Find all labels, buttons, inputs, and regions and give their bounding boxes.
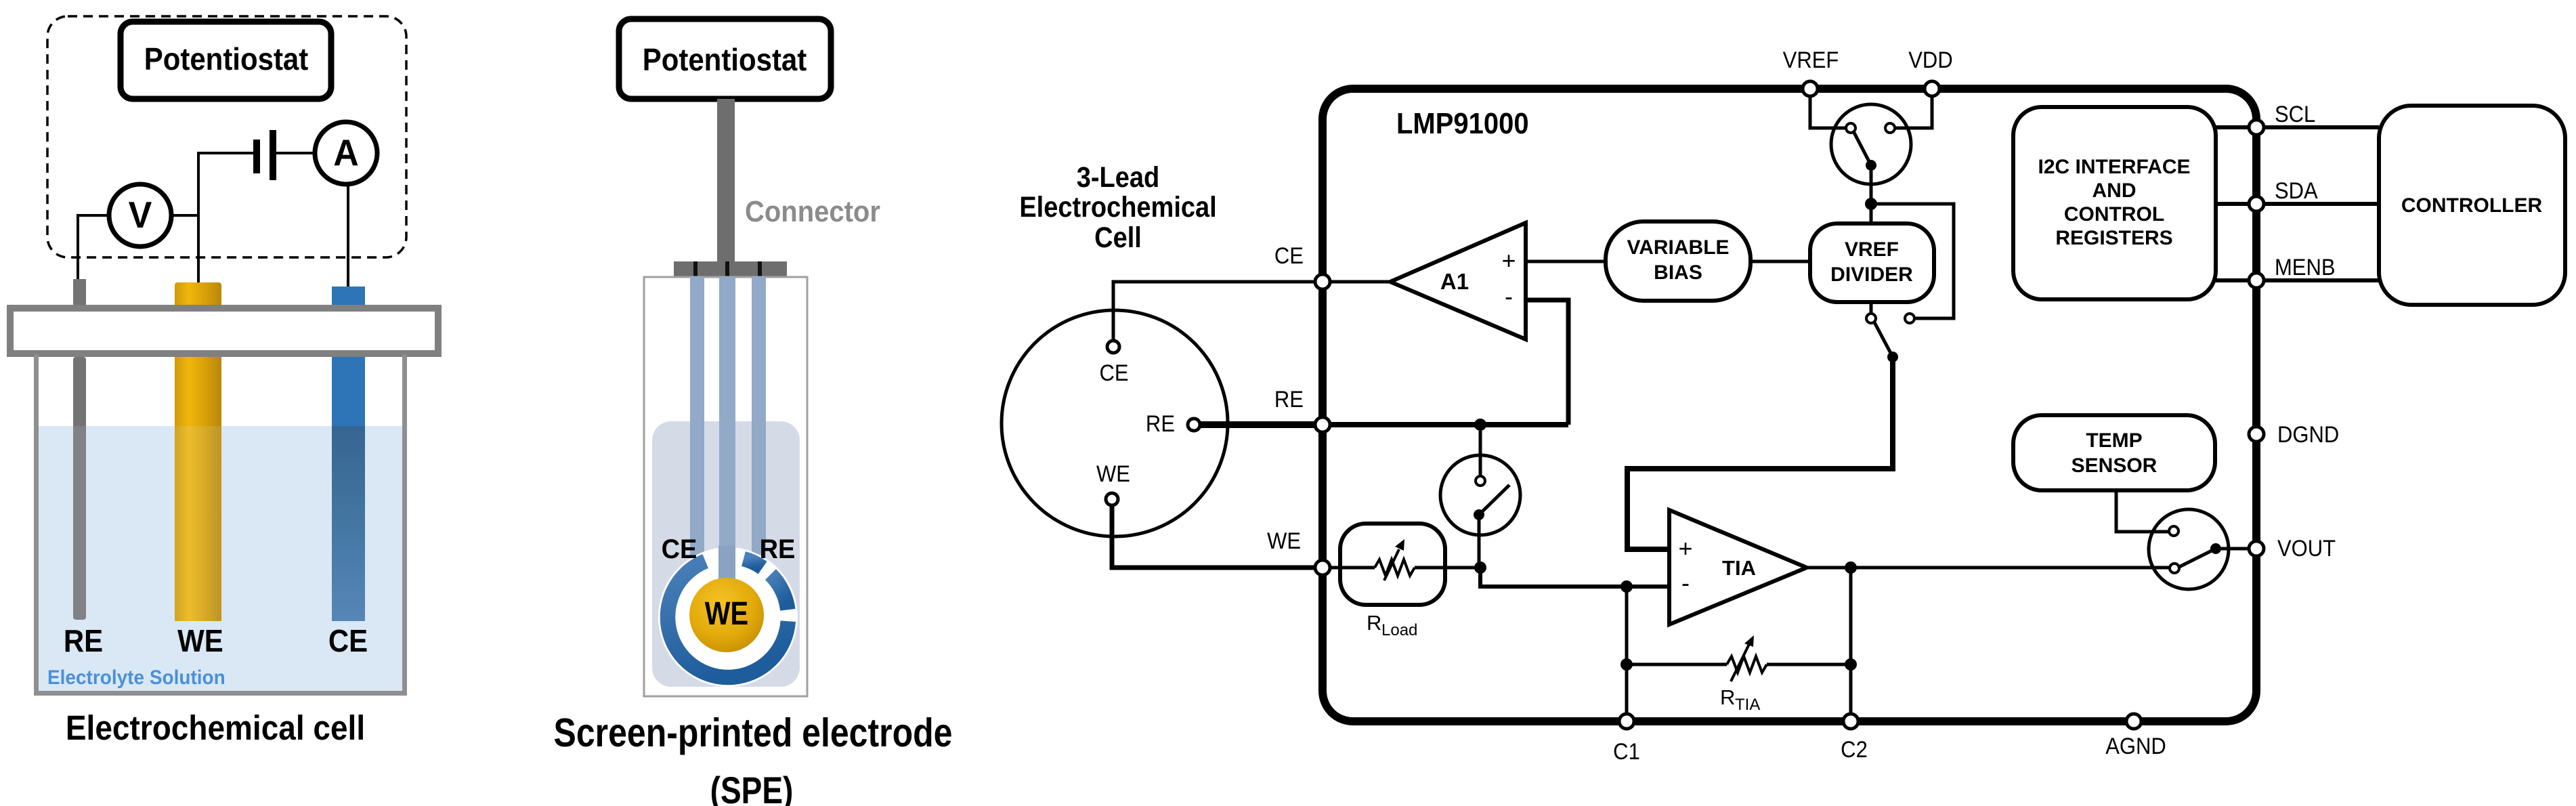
WE electrode lower	[175, 357, 221, 621]
SW-out lever	[2179, 549, 2216, 567]
SPE sensing panel	[652, 421, 800, 687]
wire SCL to controller	[2264, 125, 2379, 129]
potentiostat box	[121, 22, 331, 99]
svg-text:A1: A1	[1440, 269, 1469, 294]
3-lead cell circle	[1002, 310, 1228, 536]
junction dot TIA out	[1845, 561, 1857, 574]
cell CE terminal	[1107, 341, 1119, 353]
label RTIA	[1720, 685, 1760, 714]
junction dot RE/switch	[1474, 419, 1486, 431]
svg-text:AGND: AGND	[2105, 734, 2166, 759]
svg-text:SCL: SCL	[2275, 102, 2315, 127]
vref divider box	[1810, 224, 1934, 302]
caption 3-lead electrochemical cell	[1019, 161, 1216, 254]
wire SW-we to WE node	[1478, 515, 1481, 568]
junction dot RTIA left	[1620, 658, 1633, 671]
wire cell CE to pin CE	[1113, 282, 1323, 344]
svg-text:Screen-printed electrode: Screen-printed electrode	[554, 710, 953, 755]
pin RE	[1315, 417, 1330, 432]
svg-text:CE: CE	[662, 534, 697, 564]
svg-text:3-Lead: 3-Lead	[1077, 161, 1159, 194]
white sensing disc	[658, 547, 798, 687]
reference arc segment	[771, 574, 788, 610]
svg-text:DIVIDER: DIVIDER	[1830, 263, 1913, 286]
svg-text:CE: CE	[1099, 360, 1128, 386]
wire RLoad to WE node	[1415, 566, 1480, 570]
resistor RLoad zigzag	[1375, 559, 1415, 576]
svg-text:RE: RE	[1146, 411, 1175, 437]
bypass wire to SW-int	[1871, 204, 1954, 318]
svg-text:VARIABLE: VARIABLE	[1627, 236, 1729, 259]
junction dot C1 branch	[1620, 580, 1633, 593]
svg-text:Potentiostat: Potentiostat	[144, 42, 309, 77]
resistor RTIA zigzag	[1727, 656, 1767, 673]
svg-text:TEMP: TEMP	[2086, 429, 2142, 452]
svg-text:R: R	[1367, 611, 1381, 635]
pin C2	[1843, 714, 1858, 729]
svg-text:Connector: Connector	[745, 194, 880, 228]
svg-text:AND: AND	[2092, 179, 2137, 202]
wire WE node to TIA minus	[1480, 568, 1669, 587]
wire to C1 pin	[1625, 664, 1629, 721]
SW-ref contact VDD	[1885, 123, 1895, 133]
svg-text:RE: RE	[760, 534, 796, 564]
svg-text:SENSOR: SENSOR	[2071, 454, 2158, 477]
trace CE	[690, 276, 704, 565]
wire WE riser	[197, 153, 200, 283]
switch SW-we circle	[1440, 455, 1520, 535]
WE electrode upper stub	[175, 282, 221, 312]
wire RE dot to SW-we	[1479, 431, 1482, 476]
svg-text:TIA: TIA	[1722, 556, 1756, 580]
TIA plus supply path	[1627, 357, 1893, 549]
wire A to CE	[347, 184, 349, 287]
counter electrode ring arc	[668, 561, 788, 678]
voltmeter V	[109, 184, 171, 247]
wire battery right to A	[276, 152, 316, 154]
junction dot RTIA right	[1845, 658, 1857, 671]
water tint overlay	[39, 426, 402, 691]
SW-int pivot dot	[1887, 352, 1898, 362]
svg-text:R: R	[1720, 685, 1735, 709]
SPE body	[644, 277, 807, 696]
TIA output wire	[1807, 566, 2170, 570]
svg-text:CE: CE	[1274, 243, 1304, 269]
svg-text:Electrolyte Solution: Electrolyte Solution	[47, 666, 226, 689]
svg-text:LMP91000: LMP91000	[1396, 106, 1529, 140]
RE electrode upper stub	[73, 279, 86, 312]
svg-text:WE: WE	[1267, 528, 1301, 554]
temp sensor box	[2013, 415, 2215, 490]
cell RE terminal	[1188, 419, 1200, 431]
svg-text:DGND: DGND	[2277, 422, 2339, 448]
resistor RLoad box	[1340, 524, 1445, 605]
svg-text:SDA: SDA	[2275, 178, 2318, 204]
pin DGND	[2249, 427, 2264, 442]
svg-text:MENB: MENB	[2275, 255, 2336, 280]
pin SCL	[2249, 120, 2264, 135]
pin VREF	[1803, 81, 1818, 96]
svg-text:RE: RE	[64, 624, 103, 658]
controller box	[2379, 106, 2565, 305]
pin C1	[1619, 714, 1634, 729]
svg-text:-: -	[1505, 282, 1513, 310]
svg-text:(SPE): (SPE)	[710, 769, 794, 806]
ring segment top-right	[744, 559, 763, 568]
connector cable	[717, 99, 735, 263]
water (electrolyte)	[39, 426, 402, 691]
variable bias box	[1606, 221, 1751, 301]
svg-text:WE: WE	[1096, 461, 1130, 487]
svg-text:CONTROL: CONTROL	[2064, 203, 2164, 226]
op-amp TIA	[1669, 510, 1807, 624]
wire VREF pin down	[1810, 95, 1847, 128]
pin MENB	[2249, 273, 2264, 288]
svg-text:+: +	[1501, 247, 1516, 274]
wire V left to RE	[78, 214, 109, 217]
svg-text:A: A	[333, 132, 359, 174]
trace RE	[752, 276, 766, 565]
wire V right	[171, 214, 200, 217]
SW-int contact bypass	[1905, 314, 1914, 323]
RE net line	[1323, 422, 1568, 427]
pin AGND	[2126, 714, 2141, 729]
svg-text:V: V	[129, 194, 152, 236]
svg-text:VREF: VREF	[1845, 238, 1899, 261]
wire RTIA to dot	[1767, 663, 1851, 666]
svg-text:+: +	[1678, 534, 1692, 562]
wire temp sensor to SW-out	[2116, 490, 2169, 532]
wire RE drop	[77, 214, 79, 280]
potentiostat box (SPE)	[619, 19, 831, 99]
potentiostat dashed enclosure	[47, 16, 406, 257]
wire cell RE to pin RE	[1199, 421, 1323, 428]
SW-we top contact	[1476, 476, 1485, 486]
WE trace tail	[718, 546, 735, 580]
wire WE pin to RLoad	[1323, 566, 1375, 570]
RTIA arrow	[1731, 635, 1754, 681]
connector header	[674, 261, 787, 276]
svg-text:C1: C1	[1613, 739, 1640, 765]
SW-out contact tia	[2170, 564, 2179, 573]
SW-ref pivot dot	[1866, 160, 1876, 171]
SW-out pivot dot	[2210, 543, 2221, 554]
WE gold disc	[689, 578, 764, 652]
CE electrode upper stub	[332, 287, 365, 312]
wire SDA to controller	[2264, 202, 2379, 206]
svg-text:VOUT: VOUT	[2277, 536, 2336, 561]
RLoad arrow	[1384, 539, 1404, 580]
cell WE terminal	[1106, 493, 1118, 505]
label RLoad	[1367, 611, 1417, 639]
wire A1 plus to variable bias	[1526, 260, 1606, 263]
svg-text:Cell: Cell	[1094, 221, 1142, 254]
wire to C2 pin	[1849, 664, 1853, 721]
wire SW-ref to node	[1870, 165, 1873, 224]
SW-out contact temp	[2169, 526, 2178, 536]
switch SW-ref circle	[1831, 104, 1911, 184]
I2C interface box	[2013, 107, 2216, 299]
beaker lid	[10, 308, 438, 354]
pin VOUT	[2249, 541, 2264, 556]
svg-text:Electrochemical: Electrochemical	[1019, 190, 1216, 224]
wire I2C to SCL	[2216, 125, 2249, 129]
pin CE	[1315, 274, 1330, 289]
switch SW-out circle	[2149, 509, 2229, 589]
svg-text:Load: Load	[1381, 621, 1417, 639]
CE electrode lower	[332, 357, 365, 427]
wire I2C to MENB	[2216, 278, 2249, 282]
svg-text:WE: WE	[177, 624, 223, 658]
svg-text:VDD: VDD	[1908, 47, 1952, 73]
wire variable bias to vref divider	[1751, 260, 1810, 263]
feedback drop wire	[1849, 568, 1853, 664]
svg-text:CE: CE	[328, 624, 368, 658]
beaker walls	[37, 354, 405, 694]
ammeter A	[315, 122, 377, 184]
wire SW-out to VOUT	[2216, 547, 2249, 551]
op-amp A1	[1390, 223, 1526, 339]
SW-we pivot dot	[1474, 509, 1484, 520]
wire C1 node to RTIA	[1627, 587, 1727, 664]
svg-text:Electrochemical cell: Electrochemical cell	[66, 709, 365, 748]
svg-text:RE: RE	[1274, 387, 1304, 412]
SW-int lever	[1874, 322, 1893, 357]
wire battery left	[197, 152, 253, 154]
pin WE	[1315, 560, 1330, 575]
wire CE pin to A1	[1323, 280, 1390, 284]
SW-int contact divider	[1866, 314, 1876, 323]
wire VDD pin down	[1895, 95, 1932, 128]
wire cell WE to pin WE	[1112, 503, 1323, 568]
svg-text:-: -	[1681, 569, 1690, 597]
trace WE	[719, 276, 735, 561]
RE electrode lower	[73, 357, 86, 620]
svg-text:VREF: VREF	[1783, 47, 1839, 73]
A1 feedback wire	[1526, 300, 1568, 425]
pin SDA	[2249, 196, 2264, 211]
LMP91000 chip boundary	[1323, 89, 2256, 721]
svg-text:BIAS: BIAS	[1654, 261, 1702, 284]
svg-text:CONTROLLER: CONTROLLER	[2401, 194, 2543, 217]
battery cell symbol	[253, 130, 276, 180]
svg-text:TIA: TIA	[1735, 696, 1760, 714]
svg-text:Potentiostat: Potentiostat	[643, 43, 807, 77]
junction dot ref node	[1865, 198, 1877, 210]
junction dot WE node	[1474, 561, 1486, 574]
svg-text:I2C INTERFACE: I2C INTERFACE	[2038, 156, 2190, 178]
SW-ref contact VREF	[1846, 123, 1855, 133]
svg-text:WE: WE	[705, 596, 748, 632]
pin VDD	[1925, 81, 1939, 96]
wire vref divider down	[1870, 302, 1873, 314]
wire MENB to controller	[2264, 278, 2379, 282]
SW-we lever	[1479, 485, 1509, 515]
svg-text:REGISTERS: REGISTERS	[2055, 227, 2172, 249]
wire I2C to SDA	[2216, 202, 2249, 206]
svg-text:C2: C2	[1841, 737, 1868, 763]
SW-ref lever	[1853, 131, 1871, 165]
